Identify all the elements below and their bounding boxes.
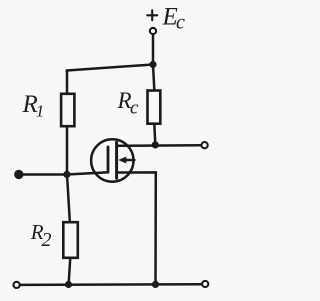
wire Ec terminal to top junction — [152, 35, 155, 65]
wire source lead — [117, 172, 156, 284]
transistor Q1 gate electrode — [107, 147, 110, 172]
label Ec — [162, 4, 186, 34]
node output terminal — [202, 142, 208, 148]
wire R2 bottom lead — [69, 259, 71, 284]
wire drain to output — [117, 144, 201, 147]
wire R1 bottom to input junction — [66, 128, 69, 175]
node junction input — [63, 171, 70, 178]
resistor R2 — [63, 222, 78, 258]
wire top horizontal — [67, 65, 153, 71]
resistor Rc — [148, 91, 161, 124]
wire R1 top lead — [66, 71, 69, 94]
svg-text:c: c — [130, 98, 139, 119]
wire input / gate lead — [19, 172, 107, 174]
wire bottom rail — [21, 283, 201, 286]
wire Rc top lead — [153, 65, 154, 90]
transistor Q1 channel — [115, 142, 118, 178]
wire Rc bottom lead — [153, 125, 156, 145]
svg-text:2: 2 — [42, 229, 52, 251]
transistor Q1 body — [91, 139, 133, 181]
svg-text:1: 1 — [36, 101, 45, 120]
transistor Q1 substrate arrow — [118, 157, 134, 164]
resistor R1 — [61, 94, 74, 126]
svg-text:c: c — [176, 12, 185, 34]
node junction top — [149, 61, 156, 68]
label Rc — [117, 88, 140, 119]
label R2 — [30, 220, 52, 251]
node junction source-rail — [152, 281, 159, 288]
node junction R2-rail — [65, 281, 72, 288]
wire input junction to R2 top — [67, 175, 70, 222]
node ground terminal left — [14, 282, 20, 288]
node junction drain — [152, 141, 159, 148]
label + (polarity) — [147, 10, 157, 20]
node +Ec terminal — [150, 28, 156, 34]
node input terminal — [15, 170, 23, 178]
label R1 — [22, 91, 45, 120]
node ground terminal right — [202, 281, 208, 287]
